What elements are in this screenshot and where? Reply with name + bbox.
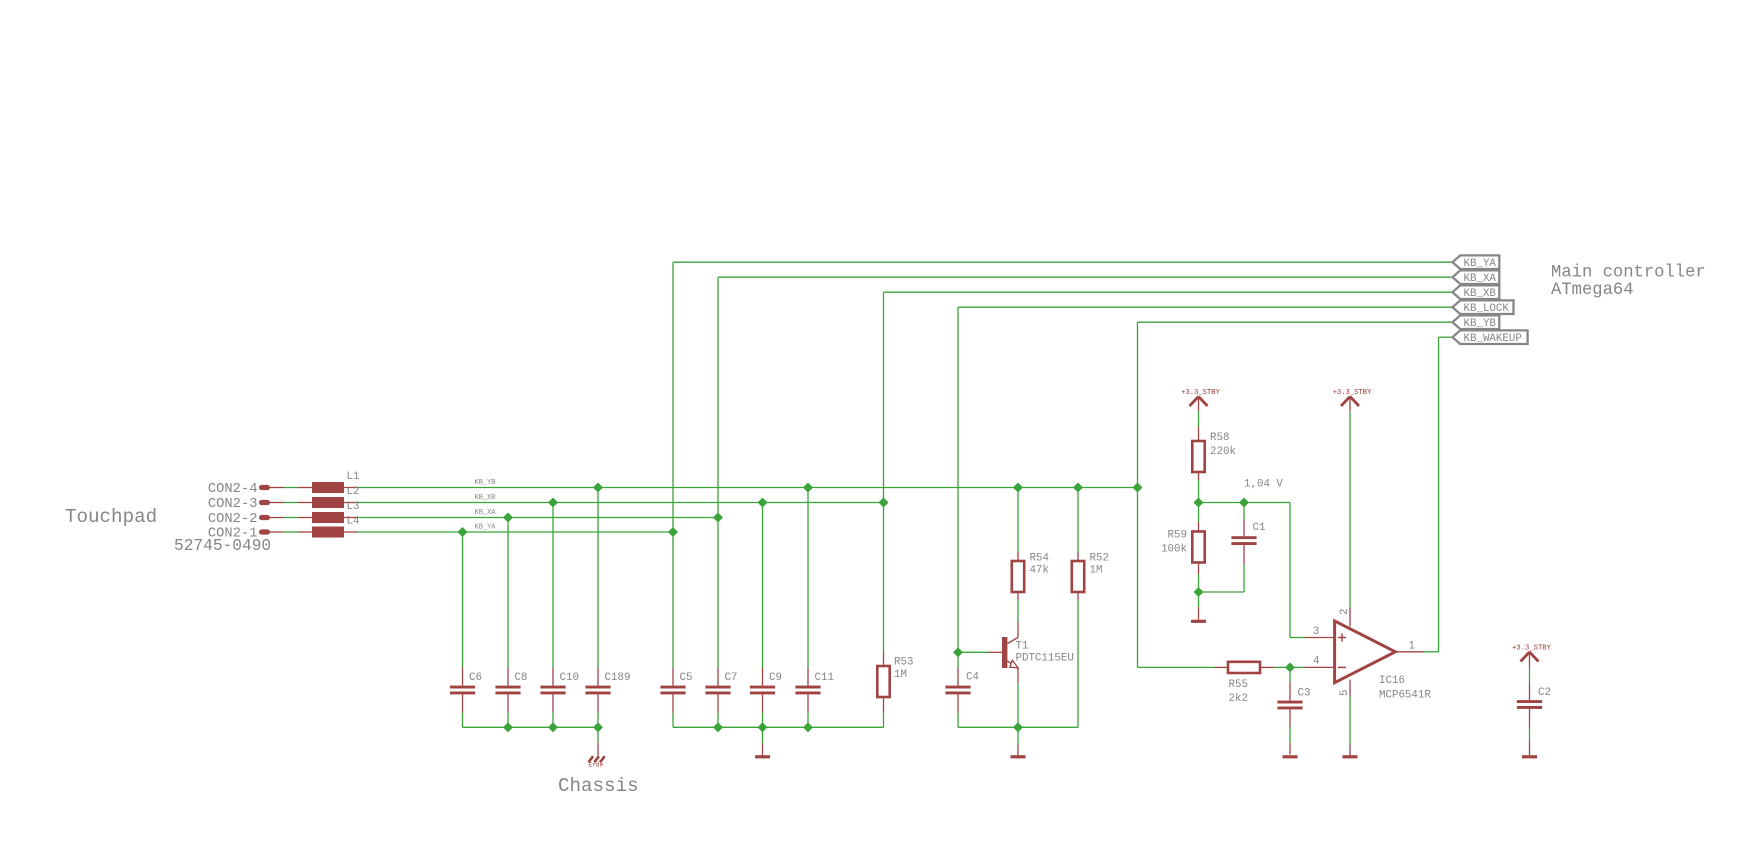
- wire net segment at CON2-1: [284, 502, 298, 504]
- svg-text:3: 3: [1313, 626, 1319, 638]
- svg-text:KB_YB: KB_YB: [1464, 318, 1497, 330]
- capacitor C4: [945, 652, 979, 727]
- wire net KB_XB vertical riser: [884, 292, 1453, 502]
- junction bus/T1 ground: [1014, 723, 1023, 732]
- wire net segment at CON2-1: [284, 487, 298, 489]
- junction KB_YB/R54: [1014, 483, 1023, 492]
- junction bus/C9 ground: [758, 723, 767, 732]
- svg-text:47k: 47k: [1030, 565, 1049, 577]
- svg-text:1M: 1M: [894, 669, 907, 681]
- svg-text:CON2-3: CON2-3: [208, 497, 258, 512]
- resistor R55 2k2: [1138, 662, 1305, 705]
- capacitor C11: [795, 488, 834, 728]
- junction R55/C3: [1286, 663, 1295, 672]
- op-amp IC16 MCP6541R: [1305, 608, 1432, 702]
- capacitor C1: [1231, 503, 1265, 593]
- junction KB_XA/C7 riser: [714, 513, 723, 522]
- ground symbol below T1: [1011, 727, 1026, 758]
- transistor T1 PDTC115EU: [958, 622, 1074, 683]
- connector pin CON2-2: [208, 512, 284, 527]
- svg-text:KB_XB: KB_XB: [1464, 288, 1497, 300]
- net flag KB_WAKEUP: [1453, 330, 1528, 345]
- junction bus/C8: [504, 723, 513, 732]
- junction KB_XA/C8: [504, 513, 513, 522]
- resistor R59 100k: [1161, 503, 1205, 593]
- junction KB_XB/C10: [549, 498, 558, 507]
- svg-text:MCP6541R: MCP6541R: [1379, 690, 1431, 702]
- capacitor C2: [1517, 682, 1551, 755]
- svg-text:R59: R59: [1168, 530, 1187, 542]
- capacitor C10: [540, 503, 579, 728]
- svg-text:KB_XB: KB_XB: [475, 494, 496, 502]
- svg-text:C4: C4: [966, 672, 979, 684]
- ground symbol below IC16: [1343, 755, 1358, 758]
- capacitor C5: [660, 532, 692, 727]
- inductor L4: [298, 515, 359, 537]
- svg-text:C3: C3: [1298, 688, 1311, 700]
- wire net KB_XA horizontal: [358, 509, 718, 518]
- svg-text:Main controller: Main controller: [1551, 264, 1706, 283]
- junction bus/C7: [714, 723, 723, 732]
- wire net KB_WAKEUP vertical riser: [1439, 337, 1453, 652]
- junction bus/chassis drop: [594, 723, 603, 732]
- wire net KB_XB horizontal: [358, 494, 884, 503]
- junction node/C1: [1240, 498, 1249, 507]
- resistor R52 1M: [1072, 488, 1109, 728]
- svg-text:CON2-4: CON2-4: [208, 482, 258, 497]
- wire net KB_LOCK vertical riser: [958, 307, 1453, 652]
- svg-text:52745-0490: 52745-0490: [174, 537, 271, 555]
- junction R59 bottom: [1194, 588, 1203, 597]
- svg-text:C6: C6: [469, 672, 482, 684]
- svg-text:L3: L3: [347, 501, 360, 513]
- ground symbol below C3: [1283, 755, 1298, 758]
- resistor R54 47k: [1012, 488, 1049, 623]
- junction KB_XB/C9: [758, 498, 767, 507]
- junction node/R58 R59: [1194, 498, 1203, 507]
- junction bus/C10: [549, 723, 558, 732]
- wire ground bus (right cap bank): [673, 726, 884, 728]
- capacitor C9: [750, 503, 782, 728]
- ground symbol below R59: [1191, 592, 1206, 623]
- wire net KB_YB vertical riser: [1138, 322, 1453, 667]
- svg-text:KB_WAKEUP: KB_WAKEUP: [1464, 333, 1522, 345]
- text Touchpad label: [65, 506, 157, 528]
- wire 1,04V reference node: [1199, 503, 1305, 638]
- inductor L1: [298, 471, 359, 493]
- svg-text:C7: C7: [725, 672, 738, 684]
- svg-text:PDTC115EU: PDTC115EU: [1016, 653, 1074, 665]
- svg-text:R53: R53: [894, 657, 913, 669]
- text 1,04 V: [1244, 479, 1283, 491]
- svg-text:220k: 220k: [1210, 446, 1236, 458]
- junction bus/C11: [804, 723, 813, 732]
- svg-text:R54: R54: [1030, 553, 1049, 565]
- svg-text:L4: L4: [347, 515, 360, 527]
- wire T1 emitter / C4 / R52 bottom bus: [958, 683, 1078, 728]
- svg-text:KB_YA: KB_YA: [475, 523, 497, 531]
- connector pin CON2-1: [208, 526, 284, 541]
- svg-text:L1: L1: [347, 471, 360, 483]
- text Main controller: [1551, 264, 1706, 301]
- svg-text:R58: R58: [1210, 432, 1229, 444]
- net flag KB_YB: [1453, 315, 1500, 330]
- svg-text:+3.3_STBY: +3.3_STBY: [1512, 645, 1552, 653]
- svg-text:R52: R52: [1090, 553, 1109, 565]
- svg-text:1: 1: [1409, 641, 1415, 653]
- power +3.3_STBY above R58: [1181, 389, 1221, 427]
- svg-text:C9: C9: [769, 672, 782, 684]
- resistor R53 1M: [877, 503, 913, 728]
- svg-text:KB_YB: KB_YB: [475, 479, 496, 487]
- capacitor C3: [1277, 667, 1310, 754]
- inductor L3: [298, 501, 359, 523]
- net flag KB_XA: [1453, 270, 1500, 285]
- wire net KB_XA vertical riser: [718, 277, 1453, 517]
- svg-text:R55: R55: [1229, 679, 1248, 691]
- svg-text:C189: C189: [605, 672, 631, 684]
- svg-text:Chassis: Chassis: [558, 775, 639, 797]
- connector pin CON2-3: [208, 497, 284, 512]
- junction KB_YB/riser: [1133, 483, 1142, 492]
- junction KB_YA/C6: [458, 528, 467, 537]
- wire IC16 output to KB_WAKEUP: [1424, 651, 1439, 653]
- resistor R58 220k: [1192, 427, 1236, 503]
- capacitor C7: [705, 518, 737, 728]
- chassis earth symbol (Erde): [588, 727, 604, 768]
- junction KB_YB/C189: [594, 483, 603, 492]
- power +3.3_STBY above IC16 pin 2: [1333, 389, 1373, 608]
- svg-text:KB_XA: KB_XA: [1464, 273, 1497, 285]
- junction KB_YB/C11: [804, 483, 813, 492]
- wire net KB_YA horizontal: [358, 523, 673, 532]
- ground symbol below right cap bank: [755, 727, 770, 758]
- wire R59/C1 bottom node: [1199, 591, 1245, 593]
- net flag KB_XB: [1453, 285, 1500, 300]
- connector pin CON2-4: [208, 482, 284, 497]
- svg-text:C2: C2: [1538, 687, 1551, 699]
- power +3.3_STBY above C2: [1512, 645, 1552, 683]
- svg-text:1M: 1M: [1090, 565, 1103, 577]
- wire chassis bus (left cap bank): [463, 726, 599, 728]
- svg-text:KB_XA: KB_XA: [475, 509, 497, 517]
- capacitor C8: [495, 518, 527, 728]
- svg-text:2k2: 2k2: [1229, 693, 1248, 705]
- svg-text:L2: L2: [347, 486, 360, 498]
- text 52745-0490 part number: [174, 537, 271, 555]
- svg-text:5: 5: [1339, 690, 1351, 696]
- svg-text:2: 2: [1339, 609, 1351, 615]
- svg-text:C1: C1: [1253, 522, 1266, 534]
- svg-text:KB_YA: KB_YA: [1464, 258, 1497, 270]
- svg-text:+3.3_STBY: +3.3_STBY: [1181, 389, 1221, 397]
- capacitor C6: [450, 532, 482, 727]
- net flag KB_YA: [1453, 255, 1500, 270]
- text Chassis label: [558, 775, 639, 797]
- inductor L2: [298, 486, 359, 508]
- svg-text:+3.3_STBY: +3.3_STBY: [1333, 389, 1373, 397]
- svg-text:C5: C5: [680, 672, 693, 684]
- svg-text:C11: C11: [815, 672, 834, 684]
- junction KB_YA/C5 riser: [669, 528, 678, 537]
- svg-text:100k: 100k: [1161, 544, 1187, 556]
- wire net KB_YA vertical riser: [673, 262, 1453, 532]
- svg-text:CON2-2: CON2-2: [208, 512, 258, 527]
- svg-text:C8: C8: [515, 672, 528, 684]
- ground symbol below C2: [1522, 755, 1537, 758]
- junction KB_XB/R53 riser: [879, 498, 888, 507]
- svg-text:ATmega64: ATmega64: [1551, 281, 1634, 300]
- svg-text:T1: T1: [1016, 641, 1029, 653]
- wire net KB_YB horizontal: [358, 479, 1138, 488]
- svg-text:Erde: Erde: [588, 762, 603, 769]
- capacitor C189: [585, 488, 630, 728]
- svg-text:1,04 V: 1,04 V: [1244, 479, 1283, 491]
- svg-text:C10: C10: [560, 672, 579, 684]
- wire IC16 pin5 to ground: [1349, 697, 1351, 756]
- junction KB_LOCK/T1 base: [954, 648, 963, 657]
- svg-text:4: 4: [1313, 656, 1319, 668]
- wire net segment at CON2-1: [284, 517, 298, 519]
- svg-text:Touchpad: Touchpad: [65, 506, 157, 528]
- svg-text:KB_LOCK: KB_LOCK: [1464, 303, 1510, 315]
- svg-text:IC16: IC16: [1379, 675, 1405, 687]
- net flag KB_LOCK: [1453, 300, 1514, 315]
- junction KB_YB/R52: [1074, 483, 1083, 492]
- wire net segment at CON2-1: [284, 531, 298, 533]
